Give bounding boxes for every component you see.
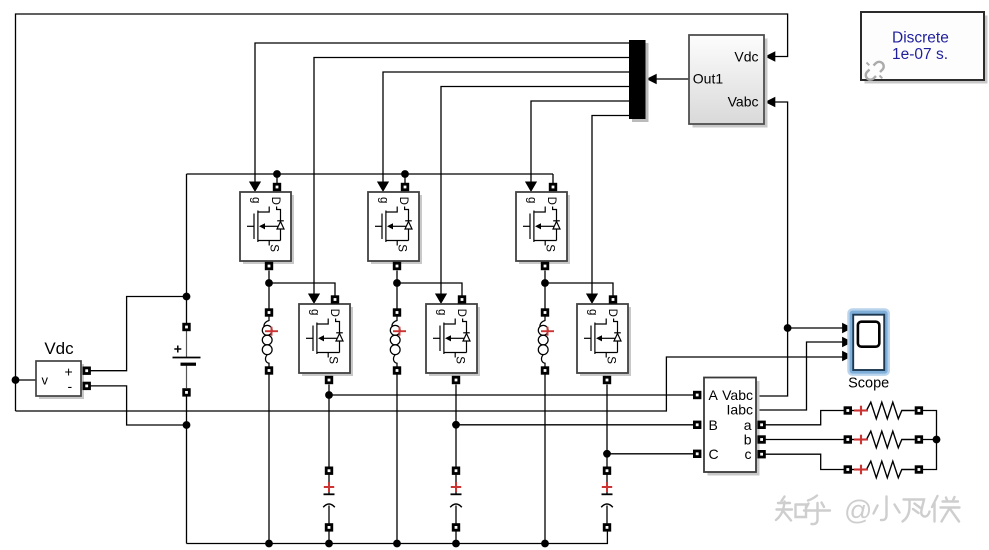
svg-text:v: v <box>42 373 49 388</box>
port: Q5 source <box>541 262 549 270</box>
wire: drain rail (DC+) <box>187 174 554 183</box>
svg-text:g: g <box>377 197 389 203</box>
port: C2 bottom <box>452 523 460 531</box>
junction: leg B: phase B tap <box>452 421 460 429</box>
wire: Out1 output to demux input <box>657 78 690 80</box>
polarity + (R1 (phase a load) polarity) <box>854 406 868 416</box>
wire: bottom rail (DC-) <box>187 531 608 544</box>
svg-text:Vdc: Vdc <box>44 339 74 358</box>
svg-text:g: g <box>249 197 261 203</box>
MOSFET Q2 (leg A bottom) <box>299 304 353 376</box>
wire: phase a to R1 <box>765 411 844 425</box>
wire: Vdc meter - to battery negative node <box>90 386 187 425</box>
wire: Vdc sense: left border + top run to controller Vdc input <box>16 14 788 411</box>
svg-text:A: A <box>709 387 719 403</box>
wire: Vabc: measurement output up to controller Vabc input <box>756 102 788 396</box>
wire: gate signal 6 (demux out6 to Q6 gate) <box>592 116 629 295</box>
port: L3 top <box>541 308 549 316</box>
port: measurement input A <box>693 391 701 399</box>
wire: phase C to measurement input C <box>607 453 694 455</box>
junction: neutral bus node <box>933 436 941 444</box>
wire: Vabc branch to Scope input 1 <box>788 327 845 329</box>
polarity + (L3 polarity) <box>541 327 554 336</box>
resistor R1 (phase a load) <box>852 402 915 419</box>
wire: leg B: inductor L2 to bottom rail <box>396 375 398 544</box>
port: R2 (phase b load) left <box>844 435 852 443</box>
wire: battery positive riser to drain rail <box>186 174 188 323</box>
svg-text:D: D <box>328 309 340 317</box>
arrowhead: Q5 gate <box>525 182 537 193</box>
polarity + (C1 polarity) <box>324 482 334 492</box>
svg-text:Vdc: Vdc <box>734 49 758 65</box>
capacitor C2 <box>450 475 462 524</box>
svg-text:Vabc: Vabc <box>728 94 759 110</box>
wire: leg C: node down to inductor L3 <box>544 283 546 309</box>
arrowhead: demux input <box>646 74 657 85</box>
port: Q6 drain <box>609 295 617 303</box>
wire: leg B: Q3 source down to node <box>396 271 398 284</box>
inductor L2 <box>390 317 400 371</box>
svg-text:g: g <box>586 309 598 315</box>
inductor L1 <box>262 317 272 371</box>
svg-text:C: C <box>709 446 719 462</box>
port: measurement input C <box>693 450 701 458</box>
wire: Vdc sense: lower run to Scope input 3 <box>16 357 845 411</box>
resistor R3 (phase c load) <box>852 461 915 478</box>
svg-text:c: c <box>745 446 752 462</box>
junction: battery + node <box>183 293 191 301</box>
capacitor C1 <box>323 475 335 524</box>
junction: v output joins border <box>12 376 20 384</box>
polarity + (C2 polarity) <box>451 482 461 492</box>
junction: leg B: inductor joins bottom rail <box>393 540 401 548</box>
wire: leg B: Q4 source down to capacitor C2 <box>455 385 457 468</box>
arrowhead: Q4 gate <box>435 294 447 305</box>
MOSFET Q3 (leg B top) <box>368 192 422 264</box>
arrowhead: Q1 gate <box>249 182 261 193</box>
svg-text:g: g <box>525 197 537 203</box>
MOSFET Q6 (leg C bottom) <box>577 304 631 376</box>
port: measurement output a <box>757 421 765 429</box>
MOSFET Q1 (leg A top) <box>240 192 294 264</box>
wire: battery negative down to bottom rail <box>186 397 188 544</box>
junction: leg C: inductor joins bottom rail <box>541 540 549 548</box>
port: measurement output b <box>757 435 765 443</box>
junction: leg A: capacitor joins bottom rail <box>325 540 333 548</box>
junction: leg B mid node <box>393 279 401 287</box>
arrowhead: Q6 gate <box>586 294 598 305</box>
port: Q1 drain <box>273 183 281 191</box>
arrowhead: Q3 gate <box>377 182 389 193</box>
port: L2 top <box>393 308 401 316</box>
controller subsystem (Vdc/Out1/Vabc) <box>689 35 768 128</box>
wire: gate signal 4 (demux out4 to Q4 gate) <box>441 87 629 295</box>
svg-text:@: @ <box>844 495 872 526</box>
wire: Vdc sense: v output to left border <box>16 379 37 381</box>
wire: leg A: node across to Q2 drain <box>269 283 335 296</box>
port: L1 bottom <box>265 366 273 374</box>
port: C2 top <box>452 467 460 475</box>
port: L3 bottom <box>541 366 549 374</box>
port: R3 (phase c load) left <box>844 465 852 473</box>
junction: rail to Q1 drain <box>273 170 281 178</box>
port: L2 bottom <box>393 366 401 374</box>
port: R1 (phase a load) right <box>915 406 923 414</box>
svg-text:D: D <box>455 309 467 317</box>
wire: leg C: Q6 source down to capacitor C3 <box>606 385 608 468</box>
arrowhead: scope input 3 <box>842 351 853 362</box>
svg-text:-: - <box>68 378 73 394</box>
powergui block: Discrete 1e-07 s. <box>861 12 988 84</box>
wire: phase A to measurement input A <box>329 394 694 396</box>
port: L1 top <box>265 308 273 316</box>
svg-text:1e-07 s.: 1e-07 s. <box>892 46 948 63</box>
wire: leg A: node down to inductor L1 <box>268 283 270 309</box>
wire: gate signal 1 (demux out1 to Q1 gate) <box>255 43 629 183</box>
svg-text:D: D <box>545 197 557 205</box>
svg-text:Discrete: Discrete <box>892 30 949 47</box>
polarity + (R3 (phase c load) polarity) <box>854 465 868 475</box>
port: battery + <box>182 323 190 331</box>
resistor R2 (phase b load) <box>852 431 915 448</box>
svg-text:D: D <box>606 309 618 317</box>
wire: leg A: inductor L1 to bottom rail <box>268 375 270 544</box>
port: C3 top <box>603 467 611 475</box>
port: Q2 source <box>325 376 333 384</box>
port: measurement output c <box>757 450 765 458</box>
polarity + (L1 polarity) <box>265 327 278 336</box>
wire: Iabc: measurement output to Scope input 2 <box>756 342 844 410</box>
port: Q5 drain <box>549 183 557 191</box>
junction: leg C: phase C tap <box>603 450 611 458</box>
arrowhead: controller Vdc input <box>765 51 776 62</box>
port: Vdc meter + <box>83 367 91 375</box>
port: Q6 source <box>603 376 611 384</box>
port: Q3 source <box>393 262 401 270</box>
port: measurement input B <box>693 421 701 429</box>
junction: leg A: phase A tap <box>325 391 333 399</box>
wire: phase c to R3 <box>765 454 844 469</box>
junction: leg B: capacitor joins bottom rail <box>452 540 460 548</box>
arrowhead: Q2 gate <box>308 294 320 305</box>
port: Vdc meter - <box>83 382 91 390</box>
port: C1 bottom <box>325 523 333 531</box>
port: R2 (phase b load) right <box>915 435 923 443</box>
junction: battery - node <box>183 421 191 429</box>
wire: gate signal 3 (demux out3 to Q3 gate) <box>383 72 629 183</box>
port: Q2 drain <box>331 295 339 303</box>
three-phase V-I measurement block <box>704 378 760 476</box>
watermark: zhihu @xiaofeixia <box>776 496 830 525</box>
svg-text:Out1: Out1 <box>693 71 724 87</box>
broken library link icon <box>866 62 884 80</box>
inductor L3 <box>538 317 548 371</box>
svg-text:D: D <box>269 197 281 205</box>
wire: leg C: node across to Q6 drain <box>545 283 613 296</box>
demux (gate signal splitter) <box>629 40 649 122</box>
wire: gate signal 5 (demux out5 to Q5 gate) <box>531 101 629 183</box>
MOSFET Q5 (leg C top) <box>516 192 570 264</box>
polarity + (L2 polarity) <box>393 327 406 336</box>
svg-text:g: g <box>308 309 320 315</box>
wire: leg C: inductor L3 to bottom rail <box>544 375 546 544</box>
wire: phase b to R2 <box>765 439 844 441</box>
wire: leg A: Q1 source down to node <box>268 271 270 284</box>
arrowhead: scope input 1 <box>842 323 853 334</box>
wire: load neutral bus <box>923 411 937 470</box>
junction: leg A mid node <box>265 279 273 287</box>
wire: leg B: node down to inductor L2 <box>396 283 398 309</box>
arrowhead: controller Vabc input <box>765 97 776 108</box>
wire: leg B: node across to Q4 drain <box>397 283 462 296</box>
port: Q4 drain <box>458 295 466 303</box>
port: Q1 source <box>265 262 273 270</box>
wire: leg B: capacitor C2 to bottom rail <box>455 532 457 544</box>
junction: leg A: inductor joins bottom rail <box>265 540 273 548</box>
port: C3 bottom <box>603 523 611 531</box>
port: R3 (phase c load) right <box>915 465 923 473</box>
svg-text:g: g <box>435 309 447 315</box>
port: C1 top <box>325 467 333 475</box>
wire: Vdc meter + to battery positive node <box>90 297 187 371</box>
svg-text:Scope: Scope <box>848 376 889 392</box>
polarity + (C3 polarity) <box>602 482 612 492</box>
port: R1 (phase a load) left <box>844 406 852 414</box>
port: Q4 source <box>452 376 460 384</box>
capacitor C3 <box>601 475 613 524</box>
port: Q3 drain <box>401 183 409 191</box>
svg-text:Iabc: Iabc <box>727 401 753 417</box>
junction: leg C mid node <box>541 279 549 287</box>
wire: leg A: capacitor C1 to bottom rail <box>328 532 330 544</box>
junction: rail to Q3 drain <box>401 170 409 178</box>
junction: Vabc branch node <box>784 324 792 332</box>
wire: gate signal 2 (demux out2 to Q2 gate) <box>314 58 629 295</box>
port: battery - <box>182 388 190 396</box>
MOSFET Q4 (leg B bottom) <box>426 304 480 376</box>
DC voltage source battery <box>173 331 201 388</box>
voltage measurement block Vdc <box>36 361 84 399</box>
svg-text:B: B <box>709 417 718 433</box>
arrowhead: scope input 2 <box>842 337 853 348</box>
wire: phase B to measurement input B <box>456 424 694 426</box>
wire: leg C: Q5 source down to node <box>544 271 546 284</box>
svg-text:b: b <box>744 431 752 447</box>
svg-text:D: D <box>397 197 409 205</box>
polarity + (R2 (phase b load) polarity) <box>854 435 868 445</box>
wire: leg A: Q2 source down to capacitor C1 <box>328 385 330 468</box>
scope block (selected) <box>847 308 890 376</box>
